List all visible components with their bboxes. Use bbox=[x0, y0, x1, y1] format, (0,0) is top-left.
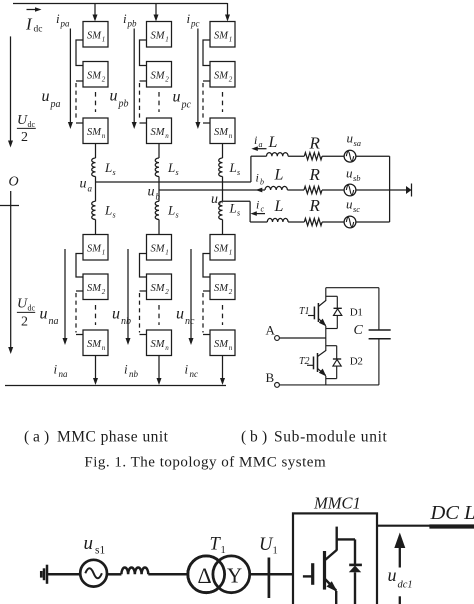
svg-text:i: i bbox=[185, 362, 189, 377]
arrow u_dc1 bbox=[399, 546, 401, 568]
sub-module box SM2 lower arm phase a bbox=[83, 274, 108, 300]
svg-text:1: 1 bbox=[221, 545, 226, 556]
svg-text:u: u bbox=[347, 131, 354, 146]
AC source u_sb bbox=[344, 184, 356, 196]
svg-text:(: ( bbox=[241, 429, 246, 446]
svg-text:2: 2 bbox=[229, 76, 233, 84]
label I_dc with direction arrow bbox=[25, 7, 42, 34]
svg-text:dc: dc bbox=[28, 304, 36, 313]
wire SMn to upper arm inductor c bbox=[222, 144, 224, 159]
svg-text:1: 1 bbox=[102, 249, 106, 257]
sub-module box SM1 lower arm phase a bbox=[83, 235, 108, 261]
svg-text:D1: D1 bbox=[350, 307, 363, 319]
resistor R phase b bbox=[304, 186, 322, 193]
diode D2 bbox=[333, 356, 363, 379]
svg-text:i: i bbox=[256, 198, 259, 212]
svg-text:a: a bbox=[33, 429, 40, 446]
wire emitter drop to B rail bbox=[325, 376, 327, 385]
wire node c to phase-c AC branch bbox=[223, 200, 251, 202]
arrow arm current i_pa bbox=[69, 29, 71, 123]
svg-text:s1: s1 bbox=[95, 545, 105, 557]
capacitor C bbox=[354, 288, 391, 385]
sub-module box SM2 upper arm phase c bbox=[210, 62, 235, 88]
svg-text:u: u bbox=[388, 565, 397, 585]
arrow arm current lower c bbox=[190, 249, 192, 339]
wire bridge to D2 bbox=[326, 345, 337, 347]
converter box MMC1 bbox=[293, 513, 377, 604]
svg-text:pb: pb bbox=[118, 99, 129, 110]
svg-text:L: L bbox=[167, 160, 175, 175]
bus bar U_1 bbox=[268, 558, 271, 599]
svg-text:i: i bbox=[187, 11, 191, 26]
svg-text:b: b bbox=[156, 192, 161, 202]
arrow arm current i_pc bbox=[197, 29, 199, 123]
resistor R phase c bbox=[304, 218, 322, 225]
svg-text:SM: SM bbox=[151, 71, 166, 82]
sub-module box SM1 lower arm phase b bbox=[147, 235, 172, 261]
svg-text:DC Li: DC Li bbox=[430, 502, 474, 524]
wire ellipsis dashes upper c bbox=[222, 92, 224, 112]
diode D1 bbox=[334, 307, 363, 329]
label U_dc/2 upper bbox=[17, 113, 36, 145]
resistor R phase a bbox=[304, 153, 322, 160]
wire node a to phase-a AC branch bbox=[96, 181, 251, 183]
svg-text:L: L bbox=[268, 134, 278, 151]
wire A to midpoint bbox=[279, 337, 325, 339]
svg-text:1: 1 bbox=[273, 546, 278, 557]
svg-text:1: 1 bbox=[229, 36, 233, 44]
wire drop from DC rail into upper SM1 phase b bbox=[155, 3, 157, 16]
svg-text:s: s bbox=[113, 168, 116, 177]
transistor Q T1 (IGBT) bbox=[299, 301, 326, 327]
svg-text:SM: SM bbox=[214, 283, 229, 294]
wire upper DC half-voltage line bbox=[10, 36, 12, 141]
wire upper inductor to node c bbox=[222, 177, 224, 202]
svg-text:u: u bbox=[84, 533, 94, 554]
svg-text:u: u bbox=[112, 306, 120, 323]
wire SMn to upper arm inductor a bbox=[95, 144, 97, 159]
DC line (bold) bbox=[429, 524, 474, 528]
svg-text:D2: D2 bbox=[350, 356, 363, 368]
svg-text:2: 2 bbox=[21, 315, 28, 330]
svg-text:A: A bbox=[266, 323, 276, 338]
svg-text:i: i bbox=[254, 133, 257, 147]
svg-text:1: 1 bbox=[102, 36, 106, 44]
wire SM1-SM2 link upper a bbox=[76, 40, 83, 66]
svg-text:dc1: dc1 bbox=[398, 580, 413, 591]
svg-text:2: 2 bbox=[102, 76, 106, 84]
svg-text:SM: SM bbox=[87, 71, 102, 82]
wire bbox=[250, 573, 293, 576]
wire phase-a AC branch bbox=[251, 155, 267, 157]
svg-text:i: i bbox=[56, 11, 60, 26]
wire SM1-SM2 link upper b bbox=[140, 40, 147, 66]
svg-text:1: 1 bbox=[165, 249, 169, 257]
wire node to lower arm inductor b bbox=[158, 190, 160, 201]
svg-text:dc: dc bbox=[34, 25, 43, 35]
svg-text:B: B bbox=[266, 370, 275, 385]
wire ellipsis dashes lower c bbox=[222, 305, 224, 325]
sub-module box SM1 lower arm phase c bbox=[210, 235, 235, 261]
inductor L_s upper arm phase c bbox=[219, 158, 223, 177]
wire bottom bridge T1 cell bbox=[326, 328, 338, 330]
sub-module box SM2 upper arm phase a bbox=[83, 62, 108, 88]
svg-text:C: C bbox=[354, 323, 364, 338]
svg-text:i: i bbox=[123, 11, 127, 26]
svg-text:u: u bbox=[346, 197, 353, 212]
svg-text:u: u bbox=[346, 166, 353, 181]
AC source u_sc bbox=[344, 216, 356, 228]
wire lower inductor to lower SM1 a bbox=[95, 220, 97, 235]
AC source u_sa bbox=[344, 150, 356, 162]
svg-text:2: 2 bbox=[165, 288, 169, 296]
wire source line bbox=[47, 573, 80, 576]
svg-text:s: s bbox=[176, 168, 179, 177]
wire phase-c AC branch bbox=[250, 221, 267, 223]
sub-module box SMn upper arm phase c bbox=[210, 118, 235, 144]
inductor L_s upper arm phase b bbox=[155, 158, 159, 177]
transistor IGBT inside MMC1 bbox=[303, 527, 338, 604]
svg-text:pc: pc bbox=[190, 19, 200, 29]
wire SM1-SM2 link lower a bbox=[76, 254, 83, 278]
wire SM1-SM2 link upper c bbox=[203, 40, 210, 66]
sub-module box SM1 upper arm phase b bbox=[147, 22, 172, 48]
wire SM2-SMn dashed link upper c bbox=[203, 80, 210, 82]
svg-text:SM: SM bbox=[151, 244, 166, 255]
label U_dc/2 lower bbox=[17, 297, 36, 330]
sub-module box SMn lower arm phase c bbox=[210, 330, 235, 356]
arrow arm current lower b bbox=[127, 249, 129, 339]
sub-module box SM2 upper arm phase b bbox=[147, 62, 172, 88]
svg-text:sc: sc bbox=[353, 204, 360, 214]
inductor L phase b bbox=[265, 186, 287, 190]
svg-text:n: n bbox=[165, 132, 169, 140]
svg-text:SM: SM bbox=[214, 71, 229, 82]
svg-text:n: n bbox=[229, 132, 233, 140]
wire SMn to bottom rail with arrow i_nc bbox=[222, 356, 224, 380]
AC source u_s1 bbox=[80, 560, 107, 587]
sub-module box SMn upper arm phase b bbox=[147, 118, 172, 144]
svg-text:U: U bbox=[17, 297, 28, 312]
svg-text:a: a bbox=[259, 140, 263, 149]
wire node to lower arm inductor c bbox=[222, 200, 224, 202]
svg-text:SM: SM bbox=[151, 31, 166, 42]
wire bbox=[107, 573, 121, 576]
svg-text:i: i bbox=[124, 362, 128, 377]
diode inside MMC1 bbox=[337, 539, 362, 604]
svg-text:pa: pa bbox=[60, 19, 71, 29]
svg-text:u: u bbox=[148, 185, 155, 200]
inductor L phase c bbox=[267, 218, 288, 222]
svg-text:c: c bbox=[219, 199, 223, 209]
svg-text:SM: SM bbox=[214, 31, 229, 42]
wire drop from DC rail into upper SM1 phase c bbox=[227, 3, 229, 16]
svg-text:2: 2 bbox=[229, 288, 233, 296]
svg-text:1: 1 bbox=[229, 249, 233, 257]
wire ellipsis dashes lower b bbox=[158, 305, 160, 325]
svg-text:): ) bbox=[262, 429, 267, 446]
svg-text:MMC1: MMC1 bbox=[313, 494, 361, 513]
svg-text:u: u bbox=[173, 89, 181, 106]
sub-module box SM1 upper arm phase a bbox=[83, 22, 108, 48]
sub-module box SMn upper arm phase a bbox=[83, 118, 108, 144]
svg-text:na: na bbox=[59, 369, 69, 379]
svg-text:u: u bbox=[42, 88, 50, 105]
svg-text:L: L bbox=[104, 203, 112, 218]
svg-text:1: 1 bbox=[165, 36, 169, 44]
wire collector riser T1 bbox=[325, 288, 327, 301]
svg-text:SM: SM bbox=[87, 283, 102, 294]
svg-text:pc: pc bbox=[181, 100, 192, 111]
svg-text:T2: T2 bbox=[299, 356, 310, 367]
svg-text:Δ: Δ bbox=[198, 563, 212, 588]
svg-text:b: b bbox=[260, 178, 264, 187]
svg-text:n: n bbox=[229, 344, 233, 352]
svg-text:O: O bbox=[9, 175, 19, 190]
sub-module box SMn lower arm phase b bbox=[147, 330, 172, 356]
svg-text:s: s bbox=[176, 211, 179, 220]
svg-text:Y: Y bbox=[227, 564, 242, 588]
svg-text:SM: SM bbox=[151, 127, 166, 138]
svg-text:SM: SM bbox=[151, 339, 166, 350]
svg-text:I: I bbox=[25, 15, 33, 34]
svg-text:n: n bbox=[165, 344, 169, 352]
svg-text:Sub-module unit: Sub-module unit bbox=[274, 429, 388, 446]
wire top DC rail bbox=[13, 3, 228, 5]
svg-text:SM: SM bbox=[87, 127, 102, 138]
sub-module box SMn lower arm phase a bbox=[83, 330, 108, 356]
inductor L_s upper arm phase a bbox=[92, 158, 96, 177]
wire SM1-SM2 link lower c bbox=[203, 254, 210, 278]
wire SM2-SMn dashed link lower c bbox=[203, 290, 210, 292]
svg-text:SM: SM bbox=[214, 339, 229, 350]
svg-text:u: u bbox=[40, 306, 48, 323]
inductor (source reactance) bbox=[121, 568, 148, 575]
wire midpoint marker bbox=[10, 191, 12, 218]
svg-text:s: s bbox=[113, 211, 116, 220]
wire bottom DC rail bbox=[5, 385, 226, 387]
svg-text:R: R bbox=[309, 133, 321, 152]
wire emitter drop to A node bbox=[325, 326, 327, 338]
svg-text:L: L bbox=[274, 166, 284, 183]
wire SM2-SMn dashed link lower b bbox=[140, 290, 147, 292]
wire SM2-SMn dashed link upper b bbox=[140, 80, 147, 82]
sub-module box SM1 upper arm phase c bbox=[210, 22, 235, 48]
svg-text:pb: pb bbox=[127, 19, 138, 29]
wire drop from DC rail into upper SM1 phase a bbox=[94, 3, 96, 16]
svg-text:L: L bbox=[274, 198, 284, 215]
inductor L_s lower arm phase b bbox=[155, 201, 159, 219]
svg-text:nc: nc bbox=[190, 369, 199, 379]
wire SM top rail bbox=[326, 287, 379, 289]
wire B rail bbox=[279, 384, 379, 386]
svg-text:nb: nb bbox=[121, 316, 131, 327]
grid connection symbol bbox=[406, 186, 412, 194]
svg-text:n: n bbox=[102, 132, 106, 140]
svg-text:Fig. 1. The topology of MMC sy: Fig. 1. The topology of MMC system bbox=[84, 455, 326, 471]
wire SMn to bottom rail with arrow i_na bbox=[95, 356, 97, 380]
svg-text:i: i bbox=[54, 362, 58, 377]
wire SMn to bottom rail with arrow i_nb bbox=[158, 356, 160, 380]
wire bbox=[148, 573, 187, 576]
wire lower inductor to lower SM1 b bbox=[158, 220, 160, 235]
svg-text:nb: nb bbox=[129, 369, 139, 379]
wire SM1-SM2 link lower b bbox=[140, 254, 147, 278]
wire ellipsis dashes upper a bbox=[95, 92, 97, 112]
svg-text:U: U bbox=[17, 113, 28, 128]
svg-text:L: L bbox=[229, 201, 237, 216]
wire DC output bbox=[377, 525, 430, 527]
svg-text:i: i bbox=[256, 171, 259, 185]
arrow current i_a bbox=[255, 148, 267, 150]
svg-text:L: L bbox=[104, 160, 112, 175]
svg-text:SM: SM bbox=[87, 339, 102, 350]
svg-text:R: R bbox=[309, 165, 321, 184]
wire lower inductor to lower SM1 c bbox=[222, 220, 224, 235]
wire ellipsis dashes lower a bbox=[95, 305, 97, 325]
svg-text:u: u bbox=[80, 177, 87, 192]
svg-text:na: na bbox=[49, 316, 59, 327]
svg-text:s: s bbox=[237, 168, 240, 177]
transistor Q T2 (IGBT) bbox=[299, 351, 326, 377]
svg-text:c: c bbox=[261, 205, 265, 214]
svg-text:a: a bbox=[88, 184, 93, 194]
arrow current i_b bbox=[256, 188, 263, 193]
svg-text:u: u bbox=[110, 88, 118, 105]
svg-text:2: 2 bbox=[21, 130, 28, 145]
sub-module box SM2 lower arm phase c bbox=[210, 274, 235, 300]
wire node b to phase-b AC branch bbox=[159, 189, 265, 191]
svg-text:u: u bbox=[176, 306, 184, 323]
svg-text:MMC phase unit: MMC phase unit bbox=[57, 429, 169, 446]
svg-text:b: b bbox=[250, 429, 258, 446]
svg-text:): ) bbox=[44, 429, 49, 446]
arrow arm current lower a bbox=[64, 249, 66, 339]
wire node to lower arm inductor a bbox=[95, 182, 97, 201]
wire bottom bridge T2 cell bbox=[326, 378, 337, 380]
svg-text:n: n bbox=[102, 344, 106, 352]
svg-text:nc: nc bbox=[185, 316, 195, 327]
wire SMn to upper arm inductor b bbox=[158, 144, 160, 159]
svg-text:dc: dc bbox=[28, 120, 36, 129]
wire bridge to D1 bbox=[326, 295, 338, 297]
arrow current i_c bbox=[254, 213, 265, 215]
svg-text:SM: SM bbox=[214, 127, 229, 138]
wire SM2-SMn dashed link lower a bbox=[76, 290, 83, 292]
wire riser T2 from A node bbox=[325, 338, 327, 351]
caption (a) MMC phase unit bbox=[24, 429, 169, 446]
svg-text:2: 2 bbox=[165, 76, 169, 84]
wire SM2-SMn dashed link upper a bbox=[76, 80, 83, 82]
svg-text:SM: SM bbox=[87, 31, 102, 42]
svg-text:L: L bbox=[229, 160, 237, 175]
sub-module box SM2 lower arm phase b bbox=[147, 274, 172, 300]
svg-text:L: L bbox=[167, 203, 175, 218]
wire lower DC half-voltage line bbox=[10, 218, 12, 347]
svg-text:s: s bbox=[237, 209, 240, 218]
svg-text:u: u bbox=[211, 192, 218, 207]
inductor L_s lower arm phase c bbox=[219, 201, 223, 219]
svg-text:(: ( bbox=[24, 429, 29, 446]
caption (b) Sub-module unit bbox=[241, 429, 388, 446]
transformer T1 bbox=[188, 556, 250, 593]
svg-text:sb: sb bbox=[353, 173, 361, 183]
wire AC-side common bus bbox=[389, 156, 391, 222]
inductor L phase a bbox=[267, 153, 289, 157]
inductor L_s lower arm phase a bbox=[92, 201, 96, 219]
svg-text:R: R bbox=[309, 196, 321, 215]
svg-text:T1: T1 bbox=[299, 306, 310, 317]
svg-text:SM: SM bbox=[214, 244, 229, 255]
svg-text:SM: SM bbox=[87, 244, 102, 255]
ground (source side) bbox=[41, 565, 47, 584]
svg-text:2: 2 bbox=[102, 288, 106, 296]
svg-text:sa: sa bbox=[354, 138, 362, 148]
arrow arm current i_pb bbox=[133, 29, 135, 123]
wire upper inductor to node a bbox=[95, 177, 97, 183]
svg-text:pa: pa bbox=[50, 99, 61, 110]
svg-text:SM: SM bbox=[151, 283, 166, 294]
wire ellipsis dashes upper b bbox=[158, 92, 160, 112]
wire upper inductor to node b bbox=[158, 177, 160, 191]
